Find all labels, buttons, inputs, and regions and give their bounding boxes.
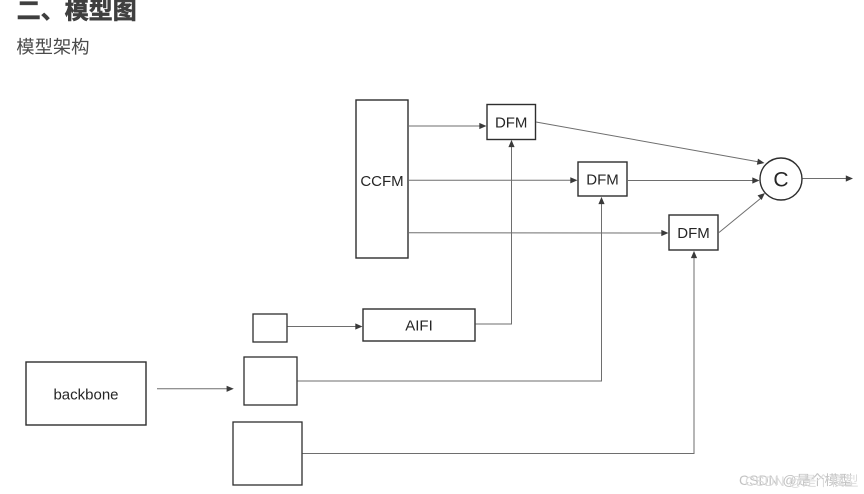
svg-text:DFM: DFM xyxy=(495,115,528,132)
wire DFM1 to node C xyxy=(536,122,765,166)
wire large box to DFM3 xyxy=(303,251,698,454)
box DFM1 xyxy=(487,105,536,140)
wire small box to AIFI xyxy=(288,323,363,329)
node C concat circle xyxy=(760,158,802,200)
box DFM2 xyxy=(578,162,627,196)
heading title 二、模型图 xyxy=(18,0,135,21)
watermark CSDN copy 1 xyxy=(739,472,852,488)
wire CCFM to DFM2 xyxy=(409,177,578,183)
wire mid box to DFM2 xyxy=(298,197,605,381)
svg-text:AIFI: AIFI xyxy=(405,318,433,335)
subtitle 模型架构 xyxy=(17,38,88,55)
box large feature xyxy=(233,422,302,485)
watermark CSDN copy 2 xyxy=(745,473,858,489)
svg-text:CCFM: CCFM xyxy=(360,173,403,190)
wire CCFM to DFM3 xyxy=(409,230,669,236)
box small feature xyxy=(253,314,287,342)
svg-text:DFM: DFM xyxy=(677,225,710,242)
svg-text:DFM: DFM xyxy=(586,172,619,189)
box mid feature xyxy=(244,357,297,405)
wire backbone to mid box xyxy=(157,386,234,392)
svg-text:CSDN @: CSDN @ xyxy=(745,473,803,489)
wire DFM3 to node C xyxy=(719,191,767,233)
wire CCFM to DFM1 xyxy=(409,123,487,129)
wire node C output xyxy=(803,175,854,181)
box DFM3 xyxy=(669,215,718,250)
box AIFI xyxy=(363,309,475,341)
wire AIFI to DFM1 xyxy=(476,140,515,324)
box backbone xyxy=(26,362,146,425)
box CCFM xyxy=(356,100,408,258)
svg-text:C: C xyxy=(773,169,788,192)
wire DFM2 to node C xyxy=(628,177,760,183)
svg-text:backbone: backbone xyxy=(53,387,118,404)
